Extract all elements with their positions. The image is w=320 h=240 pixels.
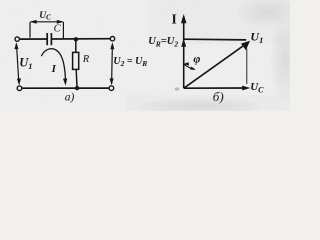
dimension arrow Uc line (31, 21, 62, 23)
scan speck near origin (175, 87, 180, 90)
angle phi arc (184, 64, 195, 69)
current arrow I (curved) (41, 49, 65, 79)
U1 arrowhead up (14, 42, 18, 49)
U2 arrowhead down (110, 78, 114, 85)
svg-text:I: I (172, 11, 177, 26)
U2 arrowhead up (110, 42, 114, 49)
svg-text:UR=U2: UR=U2 (148, 36, 178, 48)
phasor Uc horizontal axis (184, 87, 247, 89)
wire: top wire left segment (input terminal to capacitor) (19, 38, 47, 40)
wire: resistor branch lower (75, 69, 78, 87)
svg-text:R: R (82, 54, 90, 65)
current axis arrowhead (181, 14, 187, 23)
wire: bottom wire (22, 87, 109, 89)
junction dot bottom (resistor branch / bottom wire) (75, 86, 79, 90)
terminal: input bottom-left (17, 86, 22, 91)
projection line top (UR level to U1 tip) (184, 38, 246, 41)
projection line right (U1 tip down to Uc axis) (246, 49, 248, 84)
svg-text:I: I (51, 63, 57, 75)
phasor diagram: vertical current axis (183, 18, 185, 88)
wire: resistor branch upper (75, 39, 77, 52)
terminal: input top-left (15, 37, 19, 41)
phasor U1 vector (184, 45, 244, 88)
wire: top wire right segment (capacitor to output terminal) (52, 38, 111, 40)
capacitor C right plate (50, 33, 52, 45)
paper background (0, 0, 290, 111)
svg-text:φ: φ (193, 52, 200, 66)
svg-text:а): а) (65, 91, 75, 103)
junction dot top (resistor branch / top wire) (74, 37, 78, 41)
capacitor C left plate (46, 33, 48, 45)
dimension arrow Uc right arrowhead (57, 20, 64, 24)
voltage dimension arrow U1 shaft (17, 45, 19, 84)
dimension arrow Uc left arrowhead (30, 20, 37, 24)
dimension arrow Uc left tick (29, 22, 31, 38)
svg-text:C: C (54, 24, 62, 35)
current arrowhead (63, 78, 67, 85)
resistor R body (73, 52, 79, 69)
phi arc right arrowhead (190, 67, 196, 70)
phasor U1 arrowhead (241, 41, 250, 51)
svg-text:б): б) (213, 89, 224, 104)
svg-text:U2 = UR: U2 = UR (113, 56, 147, 68)
terminal: output top-right (110, 37, 114, 41)
phi arc left arrowhead (183, 62, 189, 65)
dimension arrow Uc right tick (62, 22, 64, 38)
phasor Uc arrowhead (242, 86, 250, 91)
U1 arrowhead down (17, 78, 21, 85)
phasor UR=U2 arrowhead (on vertical axis) (181, 39, 186, 47)
terminal: output bottom-right (109, 86, 114, 91)
voltage dimension arrow U2 shaft (111, 44, 114, 84)
